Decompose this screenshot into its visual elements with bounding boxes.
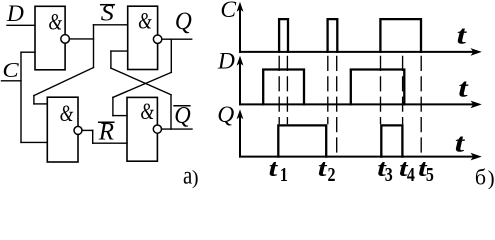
wire C to gate DD1.1 — [21, 51, 35, 53]
svg-text:&: & — [60, 101, 74, 127]
svg-text:&: & — [140, 98, 154, 124]
wire C input — [2, 80, 22, 82]
wire Qbar feedback diagonal — [111, 68, 171, 95]
waveform C — [279, 19, 421, 52]
svg-text:t: t — [269, 154, 279, 181]
axis C vertical — [239, 10, 241, 52]
dashed line t2 — [327, 56, 329, 124]
wire Qbar feedback vertical top — [110, 51, 112, 68]
svg-text:1: 1 — [280, 163, 288, 185]
gate DD1.3 NAND box — [47, 97, 78, 162]
gate DD1.4 inversion bubble — [153, 125, 161, 133]
dashed line t3 — [380, 56, 382, 124]
dashed line t4 — [402, 56, 404, 124]
dashed line t1 — [278, 56, 280, 124]
axis Q arrowhead right — [471, 153, 482, 161]
svg-text:&: & — [48, 9, 62, 35]
wire Q feedback into gate DD1.4 — [113, 115, 127, 117]
dashed line C1 fall — [286, 56, 288, 124]
wire Qbar feedback into gate DD1.2 — [111, 50, 128, 52]
wire C branch vertical — [20, 52, 22, 142]
axis C horizontal — [240, 51, 472, 53]
gate DD1.4 NAND box — [127, 97, 157, 161]
wire S-bar vertical drop — [33, 96, 35, 104]
wire S-bar junction vertical — [93, 25, 95, 68]
svg-text:): ) — [488, 166, 495, 189]
waveform D — [263, 70, 404, 105]
dashed line C2 fall — [336, 56, 338, 156]
gate DD1.3 inversion bubble — [74, 126, 82, 134]
svg-text:3: 3 — [385, 163, 393, 185]
svg-text:Q: Q — [175, 7, 192, 35]
svg-text:D: D — [6, 1, 24, 27]
wire Q feedback branch — [170, 39, 172, 72]
gate DD1.2 NAND box — [128, 6, 158, 69]
wire R-bar vertical — [92, 130, 94, 143]
gate DD1.1 inversion bubble — [61, 35, 70, 44]
axis D vertical — [239, 63, 241, 104]
wire S-bar into gate DD1.3 — [34, 103, 47, 105]
axis C arrowhead right — [471, 48, 482, 56]
svg-text:5: 5 — [426, 163, 434, 185]
svg-text:б: б — [475, 164, 486, 189]
dashed line t5 — [420, 56, 422, 156]
svg-text:2: 2 — [328, 163, 336, 185]
axis D arrowhead up — [237, 56, 244, 66]
svg-text:C: C — [220, 0, 236, 23]
wire Qbar feedback vertical — [170, 95, 172, 129]
wire C to gate DD1.3 — [21, 141, 47, 143]
wire gate DD1.3 output — [82, 129, 93, 131]
wire R-bar to gate DD1.4 — [93, 142, 127, 144]
axis D arrowhead right — [471, 101, 482, 109]
wire Qbar output — [162, 128, 193, 130]
gate DD1.1 NAND box — [35, 6, 65, 70]
axis C arrowhead up — [237, 2, 244, 12]
axis Q horizontal — [240, 156, 472, 158]
svg-text:4: 4 — [407, 163, 415, 185]
wire gate DD1.1 output — [69, 38, 93, 40]
axis Q vertical — [239, 117, 241, 157]
svg-text:t: t — [318, 154, 328, 181]
gate DD1.2 inversion bubble — [153, 35, 161, 43]
svg-text:Q: Q — [174, 102, 190, 129]
svg-text:&: & — [138, 8, 152, 34]
svg-text:): ) — [192, 167, 199, 189]
axis D horizontal — [240, 103, 472, 105]
svg-text:Q: Q — [217, 102, 234, 128]
wire D input — [7, 24, 35, 26]
wire S-bar to gate DD1.2 — [94, 24, 128, 26]
wire Q feedback vertical — [112, 97, 114, 115]
svg-text:C: C — [2, 58, 19, 81]
axis Q arrowhead up — [237, 109, 244, 119]
svg-text:D: D — [217, 49, 235, 75]
wire Q output — [162, 38, 192, 40]
wire S-bar diagonal to gate DD1.3 — [34, 68, 94, 96]
waveform Q — [278, 125, 402, 156]
wire Q feedback diagonal — [113, 72, 171, 97]
